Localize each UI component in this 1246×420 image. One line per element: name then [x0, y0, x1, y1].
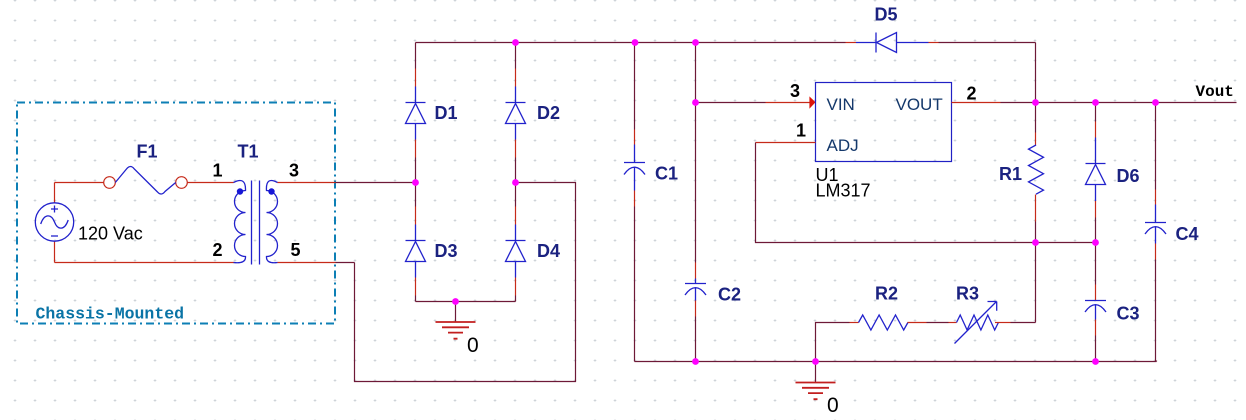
diode D2 [506, 87, 526, 140]
wire D6 column [1095, 103, 1097, 122]
diode D6 [1086, 138, 1106, 202]
svg-text:D2: D2 [537, 103, 560, 123]
svg-text:Chassis-Mounted: Chassis-Mounted [36, 305, 185, 324]
wire bridge bottom [416, 301, 516, 303]
svg-text:R3: R3 [956, 284, 979, 304]
wire R2 R3 net left [816, 323, 850, 362]
diode D1 [406, 87, 426, 140]
wire ADJ down and across [756, 143, 1096, 243]
VIN input arrow [809, 96, 815, 108]
diode D5 [856, 33, 929, 53]
voltage source V1 120Vac [35, 203, 73, 241]
fuse F1 [104, 177, 188, 189]
diode D3 [406, 225, 426, 278]
svg-text:2: 2 [213, 240, 223, 260]
resistor R2 [859, 315, 908, 330]
svg-text:5: 5 [291, 240, 301, 260]
T1 phase dot secondary [268, 188, 274, 194]
wire R1 column [1035, 103, 1037, 133]
svg-text:1: 1 [213, 161, 223, 181]
wire top rail left segment [416, 42, 846, 44]
wire top rail red stub left of D5 [846, 42, 857, 44]
svg-text:2: 2 [967, 84, 977, 104]
wire Vout rail [1001, 102, 1237, 104]
wire C1 column [634, 43, 636, 130]
svg-text:Vout: Vout [1196, 83, 1234, 101]
svg-text:D6: D6 [1117, 166, 1140, 186]
wire primary loop [55, 183, 235, 263]
svg-text:120 Vac: 120 Vac [78, 224, 143, 244]
op-amp U1 LM317 box [816, 83, 952, 162]
svg-text:VOUT: VOUT [896, 95, 943, 114]
resistor R3 potentiometer [957, 315, 999, 330]
svg-text:0: 0 [827, 394, 839, 417]
capacitor C3 [1085, 301, 1106, 320]
svg-text:3: 3 [790, 81, 800, 101]
svg-text:R2: R2 [875, 284, 898, 304]
capacitor C1 [624, 145, 645, 191]
wire secondary pin3 to bridge [278, 182, 336, 184]
ground 0 at bridge [455, 302, 457, 323]
ground 0 at bottom rail [815, 362, 817, 383]
svg-text:D1: D1 [435, 103, 458, 123]
diode D4 [506, 225, 526, 278]
svg-text:T1: T1 [238, 142, 259, 162]
transformer T1 [234, 180, 278, 264]
wire C4 bottom corner [1156, 361, 1158, 362]
capacitor C2 [685, 279, 706, 301]
wire C3 column [1095, 243, 1097, 285]
R3 arrow [955, 302, 997, 344]
wire VOUT red stub [952, 102, 1001, 104]
svg-text:D5: D5 [875, 5, 898, 25]
svg-text:F1: F1 [137, 142, 158, 162]
svg-text:C1: C1 [655, 164, 678, 184]
chassis-mounted enclosure dashed box [17, 103, 335, 324]
wire D3 column [415, 183, 417, 207]
capacitor C4 [1145, 205, 1166, 244]
wire C2 column [695, 43, 697, 263]
svg-text:D3: D3 [435, 241, 458, 261]
svg-text:LM317: LM317 [816, 181, 871, 201]
wire pin5 detour to bridge right [355, 183, 576, 382]
bridge: wire D1 column [415, 43, 417, 69]
svg-text:ADJ: ADJ [827, 136, 859, 155]
wire D4 column [515, 183, 517, 207]
wire bottom rail [635, 361, 1157, 363]
svg-text:C4: C4 [1176, 224, 1199, 244]
svg-text:3: 3 [289, 161, 299, 181]
T1 phase dot primary [237, 188, 243, 194]
svg-text:VIN: VIN [827, 95, 855, 114]
svg-text:C3: C3 [1117, 304, 1140, 324]
svg-text:R1: R1 [999, 164, 1022, 184]
svg-text:0: 0 [467, 334, 479, 357]
wire C4 column [1155, 103, 1157, 190]
svg-text:1: 1 [796, 121, 806, 141]
svg-text:D4: D4 [537, 241, 560, 261]
wire VIN from C2 column [696, 102, 766, 104]
resistor R1 [1029, 145, 1044, 194]
wire R3 to riser [995, 322, 1011, 324]
wire secondary pin5 [278, 262, 336, 264]
wire D2 column [515, 43, 517, 69]
wire top rail right segment [939, 42, 1036, 44]
wire top rail red stub right of D5 [929, 42, 939, 44]
wire top rail drop to Vout rail [1035, 43, 1037, 103]
wire ADJ red stub [756, 142, 816, 144]
wire between R2 and R3 [908, 322, 927, 324]
svg-text:C2: C2 [718, 285, 741, 305]
